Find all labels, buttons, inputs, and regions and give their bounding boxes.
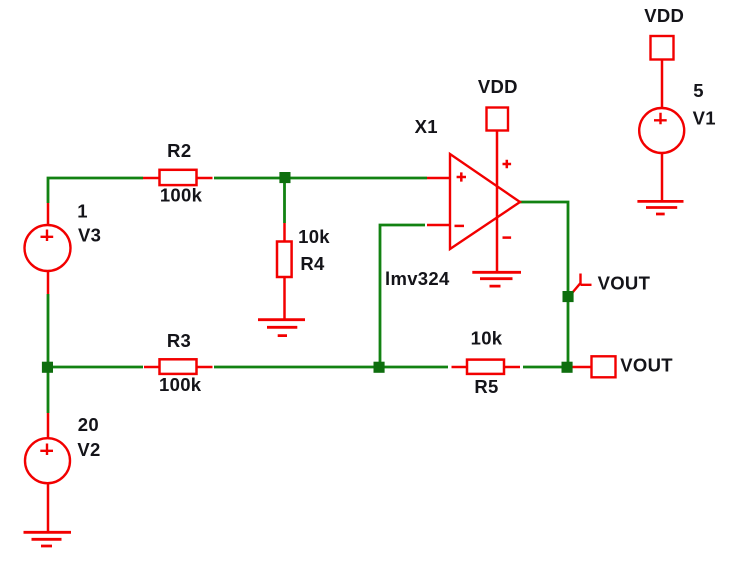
svg-text:V2: V2 xyxy=(77,439,100,460)
op-amp inverting input minus marker xyxy=(455,225,465,228)
value label 100k of R2 xyxy=(160,184,203,205)
wire: R5 left lead xyxy=(452,366,468,369)
svg-text:20: 20 xyxy=(78,414,99,435)
value label 1 of V3 xyxy=(77,201,88,222)
wire: output junction to VOUT port xyxy=(570,366,591,369)
resistor R4 body xyxy=(277,242,292,278)
resistor R2 body xyxy=(160,170,197,185)
wire: top net V3 to R2 left xyxy=(48,178,143,203)
wire: R4 top lead xyxy=(283,223,286,242)
wire: V1 bottom lead to ground xyxy=(661,152,664,201)
label lmv324 xyxy=(385,268,450,289)
wire: R3 right lead xyxy=(196,366,213,369)
port symbol VOUT square xyxy=(592,356,616,377)
voltage source V2 circle xyxy=(25,438,70,483)
label R3 xyxy=(167,330,191,351)
wire: R4 bottom lead to ground xyxy=(283,276,286,319)
voltage source V1 circle xyxy=(639,108,684,153)
value label 10k of R4 xyxy=(298,226,330,247)
op-amp positive supply plus marker xyxy=(503,160,512,168)
wire: bottom net R5 right to output junction xyxy=(523,366,564,369)
wire: V1 top lead from VDD xyxy=(661,59,664,108)
svg-text:VOUT: VOUT xyxy=(598,273,651,294)
svg-text:X1: X1 xyxy=(415,116,438,137)
probe marker VOUT xyxy=(573,274,592,293)
wire: R5 right lead xyxy=(504,366,520,369)
resistor R3 body xyxy=(160,359,197,374)
junction: bottom-left node xyxy=(42,362,53,373)
value label 20 of V2 xyxy=(78,414,99,435)
wire: R3 left lead xyxy=(144,366,160,369)
svg-text:100k: 100k xyxy=(159,374,202,395)
power symbol VDD square at V1 xyxy=(651,36,674,60)
ground at V1 xyxy=(637,201,683,214)
svg-text:10k: 10k xyxy=(471,328,503,349)
label R4 xyxy=(300,253,325,274)
resistor R5 body xyxy=(467,360,504,374)
svg-text:VOUT: VOUT xyxy=(620,354,673,375)
label R5 xyxy=(474,376,498,397)
wire: op-amp inverting input lead xyxy=(427,224,450,227)
svg-text:R4: R4 xyxy=(300,253,325,274)
op-amp non-inverting input plus marker xyxy=(457,172,466,181)
junction: VOUT probe node xyxy=(563,291,574,302)
value label 5 of V1 xyxy=(693,80,704,101)
value label 10k of R5 xyxy=(471,328,503,349)
op-amp negative supply minus marker xyxy=(503,236,512,239)
svg-text:R3: R3 xyxy=(167,330,191,351)
wire: op-amp power rail VDD to ground xyxy=(496,131,499,271)
label V3 xyxy=(78,225,101,246)
voltage source V3 plus marker xyxy=(41,230,54,242)
svg-text:VDD: VDD xyxy=(478,76,518,97)
wire: bottom net R3 right to R5 left xyxy=(214,366,448,369)
label V2 xyxy=(77,439,100,460)
ground at V2 xyxy=(24,532,72,546)
svg-text:lmv324: lmv324 xyxy=(385,268,450,289)
svg-text:VDD: VDD xyxy=(644,5,684,26)
wire: V3 bottom pin lead xyxy=(47,270,50,294)
wire: V2 bottom pin lead to ground xyxy=(47,483,50,533)
junction: inverting input node xyxy=(374,362,385,373)
value label 100k of R3 xyxy=(159,374,202,395)
svg-text:10k: 10k xyxy=(298,226,330,247)
voltage source V2 plus marker xyxy=(40,444,53,456)
svg-text:R2: R2 xyxy=(167,140,191,161)
label V1 xyxy=(693,108,716,129)
svg-text:1: 1 xyxy=(77,201,88,222)
net label VOUT at port xyxy=(620,354,673,375)
label X1 xyxy=(415,116,438,137)
wire: bottom-left junction down to V2 xyxy=(47,367,50,413)
power symbol VDD square at op-amp xyxy=(487,108,509,131)
svg-text:V3: V3 xyxy=(78,225,101,246)
svg-text:R5: R5 xyxy=(474,376,498,397)
ground at R4 xyxy=(258,320,305,336)
junction: R2 output node xyxy=(279,172,290,183)
svg-text:100k: 100k xyxy=(160,184,203,205)
net label VOUT at probe xyxy=(598,273,651,294)
wire: V2 top pin lead xyxy=(47,413,50,439)
wire: op-amp non-inverting input lead xyxy=(427,177,450,180)
wire: junction down to R4 xyxy=(283,183,286,223)
wire: R2 left lead xyxy=(143,177,160,180)
junction: output bottom node xyxy=(562,362,573,373)
wire: top net R2 right to op-amp +in xyxy=(214,177,427,180)
ground at op-amp negative supply xyxy=(472,272,521,286)
wire: V3 bottom to bottom-left junction xyxy=(47,294,50,368)
wire: V3 top pin lead xyxy=(47,203,50,226)
wire: op-amp output to VOUT node down to bottom net xyxy=(520,202,568,363)
voltage source V1 plus marker xyxy=(654,113,667,125)
svg-text:5: 5 xyxy=(693,80,704,101)
svg-text:V1: V1 xyxy=(693,108,716,129)
op-amp U1 triangle xyxy=(450,154,520,249)
net label VDD at op-amp xyxy=(478,76,518,97)
wire: R2 right lead xyxy=(196,177,213,180)
wire: inverting input from bottom net junction up to op-amp xyxy=(380,225,425,363)
wire: bottom net junction to R3 left xyxy=(47,366,143,369)
net label VDD at V1 xyxy=(644,5,684,26)
voltage source V3 circle xyxy=(25,225,71,271)
label R2 xyxy=(167,140,191,161)
